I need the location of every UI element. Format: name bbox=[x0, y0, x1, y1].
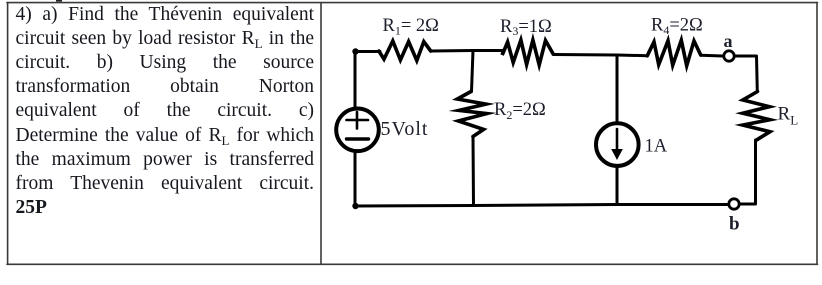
svg-text:b: b bbox=[729, 214, 740, 235]
voltage source minus sign bbox=[347, 137, 369, 140]
resistor R2 bbox=[457, 92, 486, 137]
svg-text:1A: 1A bbox=[645, 137, 668, 157]
node dot bottom-left bbox=[352, 203, 358, 209]
wire R4 to terminal a bbox=[701, 54, 723, 58]
problem statement text bbox=[16, 3, 315, 221]
resistor RL bbox=[743, 92, 770, 141]
resistor R3 bbox=[502, 40, 553, 65]
label a bbox=[724, 31, 733, 51]
wire R1 to R2-node to R3 bbox=[431, 49, 504, 53]
svg-text:R2=2Ω: R2=2Ω bbox=[494, 100, 546, 122]
label R4 = 2Ω bbox=[651, 15, 703, 37]
current source branch bottom wire bbox=[616, 166, 619, 205]
label R2 = 2Ω bbox=[494, 100, 546, 122]
terminal a (open circle) bbox=[724, 51, 734, 61]
resistor R4 bbox=[647, 40, 700, 66]
svg-text:R1= 2Ω: R1= 2Ω bbox=[383, 16, 439, 38]
terminal b (open circle) bbox=[729, 199, 739, 209]
label R1 = 2Ω bbox=[383, 16, 439, 38]
R2 branch top wire bbox=[472, 51, 474, 92]
wire RL to bottom-right corner to terminal b bbox=[740, 140, 756, 204]
label b bbox=[729, 214, 740, 235]
node dot top-left bbox=[352, 48, 358, 54]
R2 branch bottom wire bbox=[472, 137, 476, 206]
label 5Volt bbox=[381, 118, 429, 140]
current source arrow head bbox=[611, 149, 623, 160]
label 1A bbox=[645, 137, 668, 157]
current source branch top wire bbox=[616, 55, 619, 123]
bottom wire from terminal b to bottom-left bbox=[356, 205, 729, 207]
current source arrow shaft bbox=[616, 129, 619, 151]
svg-text:RL: RL bbox=[778, 104, 799, 128]
label RL bbox=[778, 104, 799, 128]
wire terminal a to right rail corner bbox=[735, 56, 757, 92]
wire top-left to R1 bbox=[355, 50, 380, 53]
resistor R1 bbox=[379, 41, 431, 61]
voltage source plus sign bbox=[347, 112, 369, 129]
label R3 = 1Ω bbox=[500, 17, 552, 38]
svg-text:R4=2Ω: R4=2Ω bbox=[651, 15, 703, 37]
left rail bottom segment bbox=[354, 151, 357, 207]
voltage source V1 circle bbox=[336, 109, 379, 152]
svg-text:R3=1Ω: R3=1Ω bbox=[500, 17, 552, 38]
current source I1 circle bbox=[596, 123, 639, 166]
svg-text:a: a bbox=[724, 31, 733, 51]
svg-text:5Volt: 5Volt bbox=[381, 118, 429, 140]
wire R3 to I-node to R4 bbox=[553, 55, 647, 56]
left rail top segment bbox=[354, 52, 357, 108]
